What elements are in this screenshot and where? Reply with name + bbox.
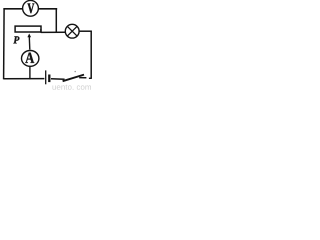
lamp L1 cross stroke 2 — [67, 26, 77, 36]
voltmeter V1 label V — [28, 4, 35, 14]
wire right vertical — [90, 31, 92, 78]
wire ammeter down to bottom wire — [29, 66, 31, 79]
wire top-left horizontal — [3, 8, 22, 10]
wire left vertical — [3, 8, 6, 79]
node junction at voltmeter branch — [40, 29, 42, 33]
wire bottom-right horizontal (switch right terminal) — [79, 77, 86, 79]
rheostat wiper arrowhead — [27, 34, 31, 38]
ammeter A1 circle — [22, 51, 39, 67]
rheostat P box — [15, 26, 41, 32]
wire battery to switch — [51, 78, 65, 81]
rheostat wiper shaft wire — [28, 37, 31, 50]
wire bottom-left horizontal — [3, 78, 44, 80]
wire rheostat right to lamp — [41, 31, 66, 33]
wire top-right vertical down to node — [55, 9, 57, 33]
lamp L1 circle — [65, 24, 79, 38]
lamp L1 cross stroke 1 — [67, 26, 77, 36]
voltmeter V1 circle — [23, 0, 39, 16]
watermark text — [53, 85, 92, 90]
wire corner foot bottom-right — [89, 77, 92, 79]
wire lamp right horizontal — [79, 30, 92, 32]
battery B1 short plate — [48, 75, 50, 83]
ammeter A1 label A — [25, 53, 34, 63]
switch S1 contact dot — [74, 71, 76, 73]
wire voltmeter to top-right corner — [38, 8, 57, 10]
rheostat label P — [13, 36, 19, 43]
battery B1 long plate — [45, 70, 47, 84]
switch S1 blade — [63, 75, 84, 82]
